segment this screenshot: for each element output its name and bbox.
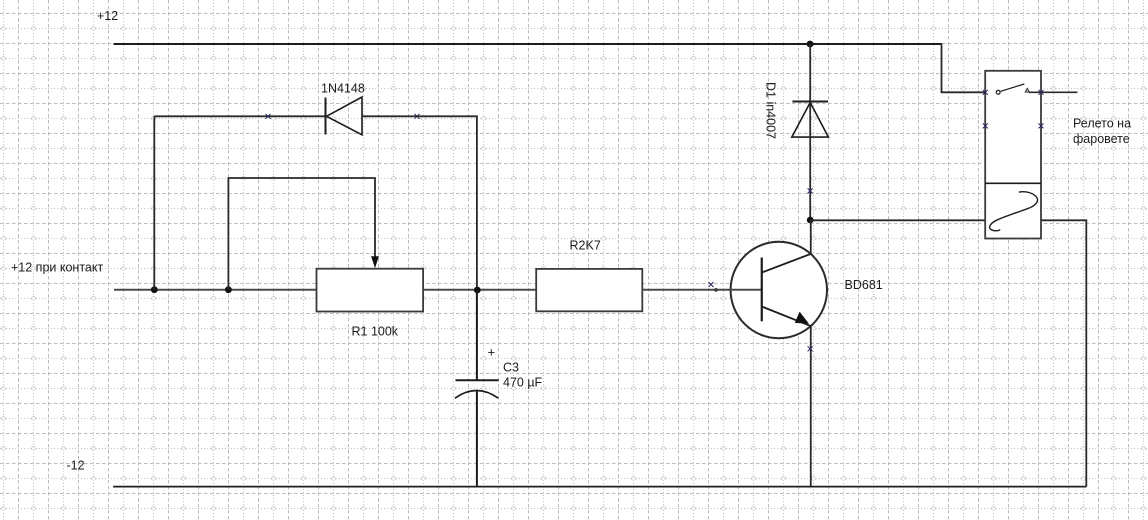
capacitor C3 bottom plate arc xyxy=(455,391,498,399)
svg-text:R1 100k: R1 100k xyxy=(352,324,399,338)
wire collector node to relay coil xyxy=(810,219,991,221)
connection marker x left of 1N4148 xyxy=(266,114,271,119)
connection marker x relay pin 4 xyxy=(1039,123,1044,128)
resistor R2 2K7 xyxy=(536,269,642,311)
connection marker x below emitter xyxy=(808,346,813,351)
connection marker x relay pin 1 xyxy=(983,90,988,95)
wire R1 to node C to R2 xyxy=(423,289,536,291)
resistor R1 100k xyxy=(317,269,424,312)
svg-text:Релето на: Релето на xyxy=(1073,117,1131,131)
wire diode loop top right + right leg down to node C xyxy=(362,116,477,290)
capacitor C3 top plate xyxy=(456,379,499,381)
wire relay coil return down xyxy=(1041,220,1086,486)
wire diode loop top left xyxy=(154,115,325,117)
relay switch blade xyxy=(1001,84,1025,91)
wire top rail corner down to relay switch xyxy=(942,43,997,92)
svg-text:BD681: BD681 xyxy=(845,278,883,292)
relay fixed contact triangle xyxy=(1025,88,1029,92)
relay coil S-curve xyxy=(990,192,1038,231)
connection marker x relay pin 2 xyxy=(1039,90,1044,95)
wire +12 top rail xyxy=(114,43,942,45)
wire wiper loop xyxy=(228,178,375,290)
relay divider line xyxy=(985,182,1041,184)
wire D1 vertical (collector node to +12) xyxy=(809,44,811,220)
svg-text:D1 in4007: D1 in4007 xyxy=(764,82,778,139)
connection marker x right of 1N4148 xyxy=(415,114,420,119)
transistor Q1 BD681 xyxy=(730,242,827,338)
wiper arrow into R1 xyxy=(371,256,379,268)
wire +12 contact rail xyxy=(114,289,317,291)
junction dot node C xyxy=(474,287,481,294)
svg-text:R2K7: R2K7 xyxy=(570,238,601,252)
wire collector up to node xyxy=(810,220,812,254)
wire relay switch output xyxy=(1029,91,1077,93)
svg-text:1N4148: 1N4148 xyxy=(321,81,365,95)
svg-text:фаровете: фаровете xyxy=(1073,132,1130,146)
junction dot node A xyxy=(151,286,158,293)
svg-text:C3: C3 xyxy=(503,360,519,374)
relay K1 outline xyxy=(985,71,1041,239)
svg-text:+12: +12 xyxy=(97,9,118,23)
pin end dot at base wire xyxy=(714,288,718,292)
wire node C down to capacitor xyxy=(476,290,478,380)
diode D2 1N4148 xyxy=(326,97,363,135)
svg-text:+12 при контакт: +12 при контакт xyxy=(11,261,103,275)
junction dot top rail / D1 xyxy=(807,41,814,48)
wire R2 to transistor base xyxy=(642,289,730,291)
connection marker x relay pin 3 xyxy=(983,123,988,128)
connection marker x at base wire xyxy=(709,282,714,287)
junction dot collector node xyxy=(807,217,814,224)
wire emitter down to -12 rail xyxy=(810,326,812,487)
wire -12 bottom rail xyxy=(113,486,1086,488)
diode D1 1n4007 xyxy=(792,102,829,138)
wire diode loop left leg xyxy=(153,116,155,289)
connection marker x on D1 wire xyxy=(808,188,813,193)
junction dot node B xyxy=(225,286,232,293)
relay switch pivot xyxy=(996,90,1000,94)
wire capacitor to -12 rail xyxy=(476,391,478,487)
svg-text:470 µF: 470 µF xyxy=(503,376,543,390)
svg-text:-12: -12 xyxy=(67,458,85,472)
svg-text:+: + xyxy=(488,345,496,360)
